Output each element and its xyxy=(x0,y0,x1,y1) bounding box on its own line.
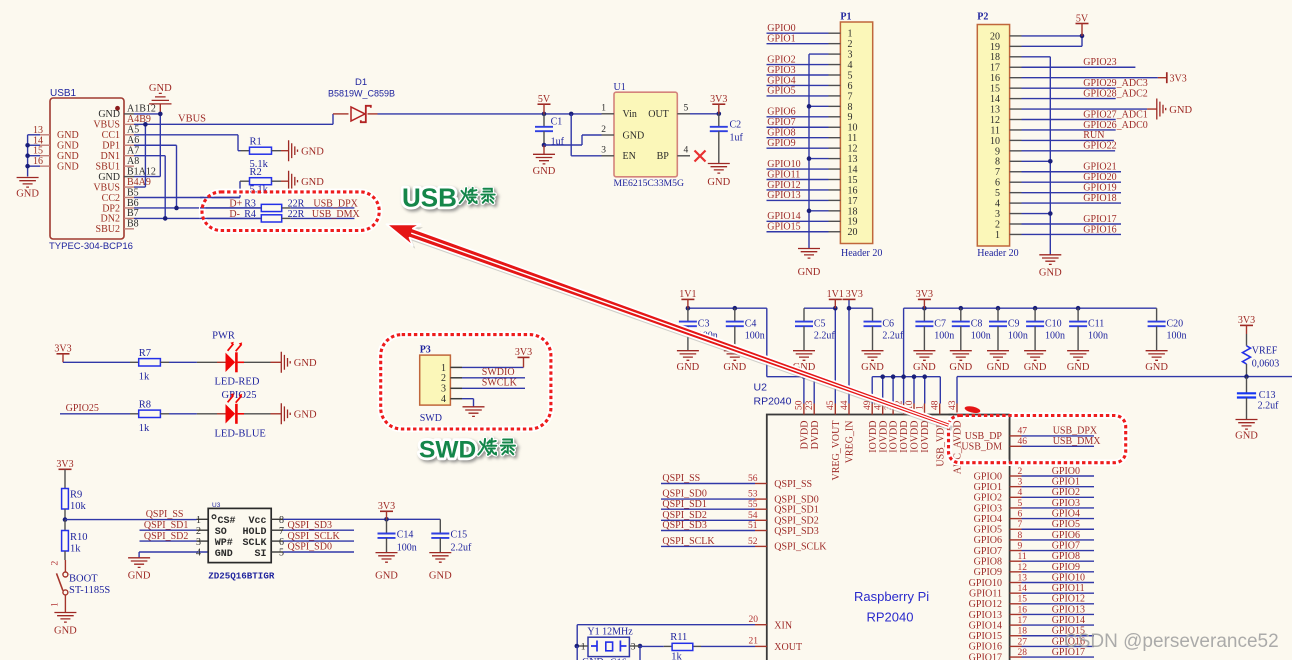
svg-text:12: 12 xyxy=(1018,563,1028,573)
switch BOOT ST-1185S xyxy=(51,560,111,613)
wire 3V3 to VREG_IN with C6 xyxy=(847,299,873,403)
svg-text:GPIO4: GPIO4 xyxy=(1052,509,1080,520)
ground GND under P1 xyxy=(798,249,821,279)
P1 pin numbers and stubs xyxy=(829,29,858,239)
svg-text:QSPI_SD0: QSPI_SD0 xyxy=(288,542,332,553)
svg-text:4: 4 xyxy=(441,394,446,405)
svg-text:CSDN @perseverance52: CSDN @perseverance52 xyxy=(1064,631,1279,652)
svg-text:10: 10 xyxy=(990,136,1000,147)
wire XIN net xyxy=(577,615,792,646)
svg-text:QSPI_SCLK: QSPI_SCLK xyxy=(662,536,715,547)
svg-text:GPIO16: GPIO16 xyxy=(1083,224,1116,235)
svg-text:9: 9 xyxy=(848,112,853,123)
svg-text:GPIO8: GPIO8 xyxy=(767,128,795,139)
svg-text:Y1 12MHz: Y1 12MHz xyxy=(587,626,633,637)
svg-text:HOLD: HOLD xyxy=(242,527,266,538)
svg-text:GND: GND xyxy=(798,267,821,278)
wire ADC_AVDD / VREF node xyxy=(957,374,1292,379)
svg-text:1: 1 xyxy=(601,104,606,114)
power flag 1V1 (second) xyxy=(827,289,844,308)
svg-text:13: 13 xyxy=(848,154,858,165)
ground GND under C1 xyxy=(533,145,556,177)
wire U1 OUT to 3V3 xyxy=(690,112,721,117)
capacitor C3 100n xyxy=(679,308,718,351)
svg-text:18: 18 xyxy=(1018,627,1028,637)
wire LED2 to GND xyxy=(238,413,282,415)
svg-text:GND: GND xyxy=(429,571,452,582)
svg-text:3: 3 xyxy=(995,209,1000,220)
svg-text:GPIO17: GPIO17 xyxy=(969,652,1002,660)
svg-text:3: 3 xyxy=(1018,478,1023,488)
connector P2 Header 20 xyxy=(977,12,1018,260)
svg-text:20: 20 xyxy=(749,615,759,625)
svg-text:GPIO12: GPIO12 xyxy=(767,180,800,191)
svg-text:3: 3 xyxy=(441,384,446,395)
svg-text:7: 7 xyxy=(995,167,1000,178)
svg-text:GPIO10: GPIO10 xyxy=(969,578,1002,589)
resistor R9 10k xyxy=(62,489,87,520)
svg-text:55: 55 xyxy=(748,500,758,510)
svg-text:4: 4 xyxy=(1018,488,1023,498)
svg-text:20: 20 xyxy=(990,31,1000,42)
LED D PWR LED-RED xyxy=(212,330,260,401)
capacitor C4 100n xyxy=(726,308,765,351)
svg-text:GND: GND xyxy=(57,141,79,152)
svg-text:5: 5 xyxy=(995,188,1000,199)
svg-text:5: 5 xyxy=(279,548,284,559)
P1 GPIO wires and net labels xyxy=(767,23,829,233)
U2 pin 16 GPIO13 xyxy=(969,604,1094,620)
ground GND under C5 xyxy=(793,351,816,373)
wire QSPI_SD3 xyxy=(271,520,354,531)
svg-text:SI: SI xyxy=(254,549,266,560)
svg-text:QSPI_SD1: QSPI_SD1 xyxy=(144,520,188,531)
svg-text:GPIO6: GPIO6 xyxy=(767,107,795,118)
svg-text:4: 4 xyxy=(848,60,853,71)
svg-text:52: 52 xyxy=(748,537,758,547)
svg-text:USB_DP: USB_DP xyxy=(965,431,1003,442)
ground GND above USB1 (inverted) xyxy=(149,83,172,104)
svg-text:GPIO7: GPIO7 xyxy=(767,117,795,128)
svg-text:R9: R9 xyxy=(70,490,82,501)
svg-text:5V: 5V xyxy=(538,94,551,105)
svg-text:GPIO4: GPIO4 xyxy=(974,514,1002,525)
svg-text:QSPI_SD3: QSPI_SD3 xyxy=(288,520,332,531)
svg-text:EN: EN xyxy=(623,151,636,162)
svg-text:27: 27 xyxy=(1018,637,1028,647)
wire LED1 to GND xyxy=(238,361,282,363)
labels D+ R3 22R USB_DPX xyxy=(229,198,358,209)
svg-text:GND: GND xyxy=(1169,105,1192,116)
svg-text:GPIO5: GPIO5 xyxy=(767,86,795,97)
svg-text:QSPI_SS: QSPI_SS xyxy=(146,509,184,520)
USB1 pin names and pad labels xyxy=(93,104,156,235)
wire IOVDD bus xyxy=(872,374,940,403)
U2 pin 46 USB_DM xyxy=(961,436,1101,453)
svg-text:8: 8 xyxy=(995,157,1000,168)
svg-text:5.1k: 5.1k xyxy=(250,185,269,196)
node BOOT divider junction xyxy=(63,517,68,522)
svg-text:GND: GND xyxy=(128,571,151,582)
resistor R4 22R xyxy=(261,215,354,222)
capacitor C15 2.2uf xyxy=(431,519,472,553)
svg-text:R11: R11 xyxy=(670,632,687,643)
svg-text:1: 1 xyxy=(915,405,925,410)
svg-text:GPIO2: GPIO2 xyxy=(767,54,795,65)
svg-text:1uf: 1uf xyxy=(551,137,565,148)
annotation text SWD burn (green) xyxy=(419,437,515,464)
svg-text:GND: GND xyxy=(913,362,936,373)
svg-text:ZD25Q16BTIGR: ZD25Q16BTIGR xyxy=(208,571,275,582)
svg-text:1: 1 xyxy=(848,29,853,40)
svg-text:GPIO9: GPIO9 xyxy=(1052,562,1080,573)
wire flash Vcc to 3V3/C14/C15 xyxy=(271,517,440,522)
svg-text:GND: GND xyxy=(301,147,324,158)
ground GND under flash pin4 xyxy=(128,558,151,582)
svg-text:C8: C8 xyxy=(971,318,983,329)
U2 pin 6 GPIO4 xyxy=(974,509,1094,525)
svg-text:GPIO15: GPIO15 xyxy=(969,631,1002,642)
annotation red arrow from RP2040 USB pins to USB burn box xyxy=(387,224,953,431)
svg-text:ST-1185S: ST-1185S xyxy=(69,585,110,596)
ground GND under C7 xyxy=(913,351,936,373)
svg-text:12: 12 xyxy=(990,115,1000,126)
U2 pin 5 GPIO3 xyxy=(974,498,1094,514)
annotation dashed box SWD burn xyxy=(381,335,551,429)
svg-text:A5: A5 xyxy=(127,125,139,136)
svg-text:GND: GND xyxy=(57,130,79,141)
svg-text:1V1: 1V1 xyxy=(679,289,696,300)
svg-text:GPIO1: GPIO1 xyxy=(974,482,1002,493)
svg-text:B1A12: B1A12 xyxy=(127,166,156,177)
svg-text:22R: 22R xyxy=(288,209,305,220)
svg-text:4: 4 xyxy=(684,146,689,156)
svg-text:VREG_VOUT: VREG_VOUT xyxy=(831,421,842,481)
power flag 3V3 above VREF xyxy=(1238,315,1255,346)
svg-text:3V3: 3V3 xyxy=(515,347,532,358)
svg-text:5V: 5V xyxy=(1076,13,1089,24)
svg-text:14: 14 xyxy=(1018,584,1028,594)
svg-text:QSPI_SCLK: QSPI_SCLK xyxy=(288,531,341,542)
ground GND under P2 xyxy=(1039,255,1062,279)
svg-text:C4: C4 xyxy=(745,318,757,329)
power flag 3V3 at P3 xyxy=(515,347,532,358)
resistor R3 22R xyxy=(261,204,354,211)
svg-text:14: 14 xyxy=(848,164,858,175)
connector USB1 TYPEC-304-BCP16 xyxy=(49,88,133,252)
svg-text:GPIO2: GPIO2 xyxy=(974,493,1002,504)
ground GND under C14 xyxy=(375,553,398,582)
svg-text:D1: D1 xyxy=(355,77,367,88)
svg-text:P2: P2 xyxy=(977,12,988,23)
svg-text:SWCLK: SWCLK xyxy=(482,378,518,389)
svg-text:QSPI_SS: QSPI_SS xyxy=(662,473,700,484)
wire P3 pin1 to 3V3 xyxy=(462,357,524,367)
ground GND under C10 xyxy=(1024,351,1047,373)
svg-text:VREG_IN: VREG_IN xyxy=(845,421,856,464)
svg-text:GPIO0: GPIO0 xyxy=(1052,466,1080,477)
U2 pin 3 GPIO1 xyxy=(974,477,1094,493)
svg-text:1: 1 xyxy=(196,515,201,526)
svg-text:Vin: Vin xyxy=(623,109,637,120)
wire CC2 to R2 xyxy=(134,181,250,197)
resistor R1 5.1k xyxy=(250,136,289,170)
svg-text:11: 11 xyxy=(848,133,858,144)
svg-text:5: 5 xyxy=(684,104,689,114)
svg-text:19: 19 xyxy=(990,42,1000,53)
svg-text:XOUT: XOUT xyxy=(774,642,802,653)
svg-text:100n: 100n xyxy=(934,330,954,341)
svg-text:GND: GND xyxy=(723,362,746,373)
svg-text:DP1: DP1 xyxy=(102,141,120,152)
svg-text:GND: GND xyxy=(54,626,77,637)
power flag 3V3 above C14 xyxy=(378,501,395,519)
svg-text:GPIO5: GPIO5 xyxy=(1052,519,1080,530)
svg-text:6: 6 xyxy=(1018,510,1023,520)
svg-text:C2: C2 xyxy=(730,120,742,131)
connector P3 SWD xyxy=(420,345,451,425)
svg-text:SCLK: SCLK xyxy=(242,538,266,549)
svg-text:B6: B6 xyxy=(127,198,139,209)
svg-text:0,0603: 0,0603 xyxy=(1252,359,1280,370)
svg-text:USB: USB xyxy=(402,183,457,213)
watermark CSDN @perseverance52 xyxy=(1064,631,1279,652)
ground GND under USB1 left xyxy=(16,178,39,200)
svg-text:R2: R2 xyxy=(250,167,262,178)
svg-text:16: 16 xyxy=(1018,605,1028,615)
svg-text:DN2: DN2 xyxy=(101,214,120,225)
svg-text:IOVDD: IOVDD xyxy=(889,421,900,453)
svg-text:3: 3 xyxy=(196,537,201,548)
svg-text:GND: GND xyxy=(98,109,120,120)
wire XOUT net xyxy=(693,636,802,653)
ground GND right of R2 xyxy=(289,171,325,192)
U2 pin 13 GPIO10 xyxy=(969,572,1094,588)
svg-text:DP2: DP2 xyxy=(102,203,120,214)
svg-text:RUN: RUN xyxy=(1083,130,1104,141)
svg-text:3V3: 3V3 xyxy=(54,344,71,355)
resistor R7 1k xyxy=(139,348,169,383)
svg-text:Raspberry Pi: Raspberry Pi xyxy=(854,589,929,604)
LED LED-BLUE xyxy=(215,393,266,439)
capacitor C13 2.2uf xyxy=(1237,377,1279,420)
U2 pin 18 GPIO15 xyxy=(969,626,1094,642)
svg-text:GPIO3: GPIO3 xyxy=(1052,498,1080,509)
U2 pin 9 GPIO7 xyxy=(974,540,1094,556)
U1 pin names/numbers xyxy=(601,104,690,163)
svg-text:22R: 22R xyxy=(288,198,305,209)
wire QSPI_SD1 xyxy=(140,520,209,531)
svg-text:13: 13 xyxy=(990,104,1000,115)
svg-text:OUT: OUT xyxy=(648,109,669,120)
svg-text:GND: GND xyxy=(707,177,730,188)
resistor VREF 0,0603 (zigzag) xyxy=(1243,346,1280,377)
svg-text:100n: 100n xyxy=(1008,330,1028,341)
wire QSPI_SD2 xyxy=(140,531,209,542)
svg-text:GND: GND xyxy=(1024,362,1047,373)
svg-text:TYPEC-304-BCP16: TYPEC-304-BCP16 xyxy=(49,241,133,252)
ground GND under P3 (no text) xyxy=(463,407,485,417)
annotation dashed box USB burn (R3/R4) xyxy=(200,185,379,231)
U2 pin 28 GPIO17 xyxy=(969,647,1094,660)
svg-text:GPIO17: GPIO17 xyxy=(1083,214,1116,225)
svg-text:15: 15 xyxy=(848,175,858,186)
wire 3V3 bus over C7-C11,C20 xyxy=(904,306,1157,377)
U2 top power pins xyxy=(795,400,964,480)
svg-text:USB_DPX: USB_DPX xyxy=(313,198,358,209)
wire P1 GND chain xyxy=(807,54,829,248)
wire QSPI_SS to U2 pin 56 xyxy=(661,473,812,490)
svg-text:GPIO10: GPIO10 xyxy=(1052,572,1085,583)
svg-text:GPIO3: GPIO3 xyxy=(767,65,795,76)
svg-text:USB_DMX: USB_DMX xyxy=(1053,436,1102,447)
svg-text:IOVDD: IOVDD xyxy=(868,421,879,453)
svg-text:BP: BP xyxy=(657,151,670,162)
svg-text:100n: 100n xyxy=(1088,330,1108,341)
svg-text:8: 8 xyxy=(279,515,284,526)
svg-text:1: 1 xyxy=(581,643,586,653)
svg-text:B8: B8 xyxy=(127,219,139,230)
svg-text:QSPI_SCLK: QSPI_SCLK xyxy=(774,542,827,553)
svg-text:3V3: 3V3 xyxy=(378,501,395,512)
svg-text:GPIO8: GPIO8 xyxy=(1052,551,1080,562)
wire flash pin4 to GND xyxy=(139,552,208,558)
diode D1 B5819W_C859B xyxy=(328,77,395,122)
svg-text:1: 1 xyxy=(995,230,1000,241)
U2 pin 11 GPIO8 xyxy=(974,551,1094,567)
wire USB_VDD / ADC_AVDD feeds xyxy=(956,377,958,404)
svg-text:GPIO21: GPIO21 xyxy=(1083,162,1116,173)
svg-text:100n: 100n xyxy=(971,330,991,341)
svg-text:3: 3 xyxy=(601,146,606,156)
svg-text:C5: C5 xyxy=(814,318,826,329)
svg-text:Vcc: Vcc xyxy=(248,516,266,527)
svg-text:VREF: VREF xyxy=(1252,346,1278,357)
ground GND under C3 xyxy=(677,351,700,373)
svg-text:3V3: 3V3 xyxy=(1238,315,1255,326)
P3 pin numbers and stubs xyxy=(441,363,462,405)
net label GPIO25 xyxy=(66,403,99,414)
svg-text:U3: U3 xyxy=(212,502,221,509)
svg-text:GPIO22: GPIO22 xyxy=(1083,141,1116,152)
svg-text:1: 1 xyxy=(51,602,61,607)
wire QSPI_SD0 to U2 pin 53 xyxy=(661,489,819,506)
P2 pin numbers and stubs xyxy=(990,31,1022,241)
crystal Y1 12MHz xyxy=(575,626,643,656)
svg-text:48: 48 xyxy=(931,400,941,410)
ground GND right of LED2 xyxy=(281,403,317,424)
svg-text:2: 2 xyxy=(848,39,853,50)
capacitor C20 100n xyxy=(1148,308,1187,351)
svg-text:CS#: CS# xyxy=(218,516,236,527)
svg-text:17: 17 xyxy=(990,63,1000,74)
svg-text:11: 11 xyxy=(990,125,1000,136)
svg-text:GPIO20: GPIO20 xyxy=(1083,172,1116,183)
svg-text:GPIO0: GPIO0 xyxy=(974,471,1002,482)
svg-text:GPIO4: GPIO4 xyxy=(767,75,795,86)
ground GND under C13 xyxy=(1235,420,1258,442)
svg-text:A7: A7 xyxy=(127,146,139,157)
svg-text:C1: C1 xyxy=(551,117,563,128)
svg-text:XIN: XIN xyxy=(774,621,792,632)
wire P3 pin4 to GND xyxy=(462,399,474,407)
svg-text:GND: GND xyxy=(861,362,884,373)
svg-text:10: 10 xyxy=(848,123,858,134)
svg-text:8: 8 xyxy=(848,102,853,113)
ground GND under C9 xyxy=(987,351,1010,373)
svg-text:GPIO19: GPIO19 xyxy=(1083,182,1116,193)
svg-text:GPIO18: GPIO18 xyxy=(1083,193,1116,204)
svg-text:15: 15 xyxy=(990,84,1000,95)
svg-text:IOVDD: IOVDD xyxy=(878,421,889,453)
svg-text:2.2uf: 2.2uf xyxy=(1258,401,1280,412)
svg-text:3: 3 xyxy=(848,50,853,61)
svg-text:LED-RED: LED-RED xyxy=(215,377,260,388)
ground GND under C6 xyxy=(861,351,884,373)
no-connect X on U1 BP pin xyxy=(695,151,706,162)
svg-text:1V1: 1V1 xyxy=(827,289,844,300)
P2 GPIO wires and net labels xyxy=(1022,57,1148,235)
svg-text:12: 12 xyxy=(848,144,858,155)
svg-text:GPIO5: GPIO5 xyxy=(974,525,1002,536)
labels D- R4 22R USB_DMX xyxy=(229,209,360,220)
wire P2 5V (pins 20,19) xyxy=(1022,34,1085,47)
capacitor C9 100n xyxy=(989,308,1028,351)
svg-text:GPIO9: GPIO9 xyxy=(974,567,1002,578)
svg-text:2.2uf: 2.2uf xyxy=(882,330,904,341)
U2 pin 7 GPIO5 xyxy=(974,519,1094,535)
wire USB D+ net xyxy=(134,145,261,210)
svg-text:GND: GND xyxy=(375,571,398,582)
svg-text:20: 20 xyxy=(848,227,858,238)
svg-text:6: 6 xyxy=(995,178,1000,189)
svg-text:C6: C6 xyxy=(882,318,894,329)
svg-text:QSPI_SD2: QSPI_SD2 xyxy=(144,531,188,542)
svg-text:RP2040: RP2040 xyxy=(867,610,914,625)
svg-text:GPIO14: GPIO14 xyxy=(969,620,1002,631)
svg-text:15: 15 xyxy=(1018,595,1028,605)
svg-text:GND: GND xyxy=(98,172,120,183)
svg-text:B7: B7 xyxy=(127,208,139,219)
svg-text:5: 5 xyxy=(1018,499,1023,509)
svg-text:3V3: 3V3 xyxy=(710,94,727,105)
resistor R11 1k xyxy=(640,632,693,660)
ground GND right of R1 xyxy=(289,140,325,161)
svg-text:GPIO0: GPIO0 xyxy=(767,23,795,34)
annotation dashed box USB_DP/USB_DM xyxy=(949,415,1126,464)
ground GND under C4 xyxy=(723,351,746,373)
svg-text:QSPI_SD3: QSPI_SD3 xyxy=(774,526,818,537)
svg-text:GPIO23: GPIO23 xyxy=(1083,57,1116,68)
svg-text:GPIO6: GPIO6 xyxy=(974,535,1002,546)
wire crystal legs down (cut off) xyxy=(577,646,640,660)
svg-text:C11: C11 xyxy=(1088,318,1104,329)
svg-text:14: 14 xyxy=(990,94,1000,105)
svg-text:QSPI_SS: QSPI_SS xyxy=(774,479,812,490)
svg-text:1k: 1k xyxy=(139,423,150,434)
svg-text:C9: C9 xyxy=(1008,318,1020,329)
svg-text:1k: 1k xyxy=(139,371,150,382)
svg-text:10k: 10k xyxy=(70,501,87,512)
wire QSPI_SS net xyxy=(65,509,208,520)
ground GND under C15 xyxy=(429,553,452,582)
svg-text:C14: C14 xyxy=(397,530,414,541)
flash U3 ZD25Q16BTIGR xyxy=(196,502,284,582)
svg-text:GND: GND xyxy=(533,166,556,177)
svg-text:7: 7 xyxy=(848,91,853,102)
svg-text:A1B12: A1B12 xyxy=(127,104,156,115)
wire QSPI_SD2 to U2 pin 54 xyxy=(661,510,819,527)
